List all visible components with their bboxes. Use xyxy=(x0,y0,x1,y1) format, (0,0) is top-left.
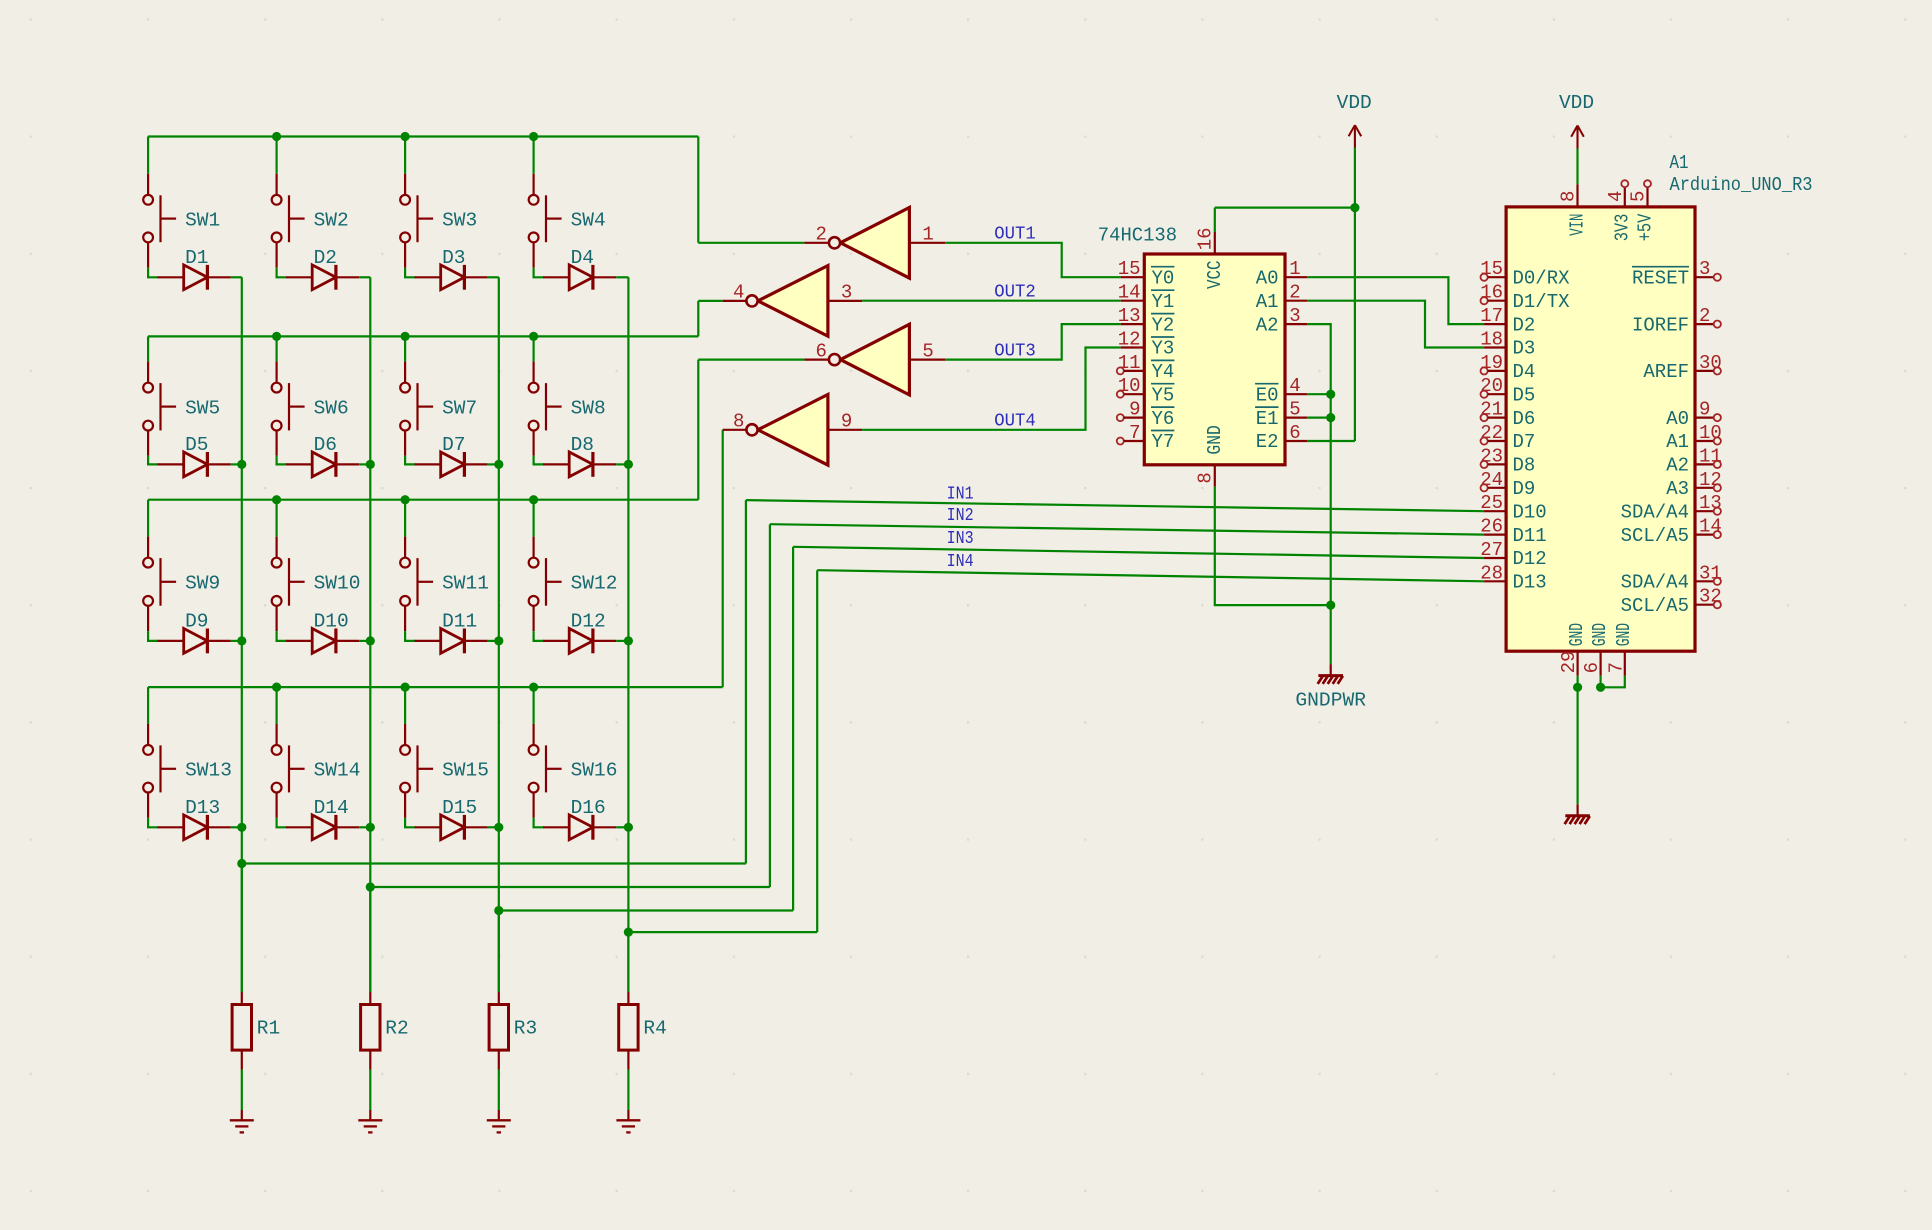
svg-text:3: 3 xyxy=(841,282,852,304)
svg-text:8: 8 xyxy=(1194,472,1216,483)
svg-text:24: 24 xyxy=(1480,469,1503,491)
svg-text:14: 14 xyxy=(1699,516,1722,538)
svg-text:12: 12 xyxy=(1699,469,1722,491)
svg-text:9: 9 xyxy=(1129,399,1140,421)
svg-text:D13: D13 xyxy=(1513,572,1547,594)
svg-text:D4: D4 xyxy=(571,247,594,269)
svg-text:Y6: Y6 xyxy=(1152,408,1175,430)
svg-text:RESET: RESET xyxy=(1632,267,1689,289)
svg-text:23: 23 xyxy=(1480,445,1503,467)
svg-text:VDD: VDD xyxy=(1559,92,1594,114)
svg-text:GND: GND xyxy=(1566,623,1588,646)
svg-text:D6: D6 xyxy=(1513,408,1536,430)
svg-text:9: 9 xyxy=(1699,399,1710,421)
svg-text:Y3: Y3 xyxy=(1152,338,1175,360)
svg-text:D8: D8 xyxy=(1513,455,1536,477)
svg-text:IN1: IN1 xyxy=(947,484,974,504)
svg-text:11: 11 xyxy=(1699,445,1722,467)
svg-text:Y7: Y7 xyxy=(1152,431,1175,453)
svg-text:10: 10 xyxy=(1699,422,1722,444)
svg-text:SW13: SW13 xyxy=(185,760,232,782)
svg-text:7: 7 xyxy=(1129,422,1140,444)
svg-text:15: 15 xyxy=(1118,258,1141,280)
svg-text:4: 4 xyxy=(1605,191,1627,202)
svg-text:7: 7 xyxy=(1605,662,1627,673)
svg-text:Y2: Y2 xyxy=(1152,314,1175,336)
svg-text:D12: D12 xyxy=(1513,548,1547,570)
svg-text:A1: A1 xyxy=(1666,431,1689,453)
svg-text:OUT2: OUT2 xyxy=(994,283,1036,303)
svg-text:D11: D11 xyxy=(442,610,477,632)
svg-text:26: 26 xyxy=(1480,516,1503,538)
svg-text:D10: D10 xyxy=(314,610,349,632)
svg-text:IN4: IN4 xyxy=(947,552,974,572)
svg-text:D9: D9 xyxy=(1513,478,1536,500)
svg-text:SDA/A4: SDA/A4 xyxy=(1621,572,1689,594)
svg-text:D16: D16 xyxy=(571,797,606,819)
svg-text:GND: GND xyxy=(1589,623,1611,646)
svg-text:27: 27 xyxy=(1480,539,1503,561)
svg-text:R1: R1 xyxy=(257,1018,280,1040)
svg-text:1: 1 xyxy=(1289,258,1300,280)
svg-text:D1/TX: D1/TX xyxy=(1513,291,1571,313)
svg-text:IOREF: IOREF xyxy=(1632,314,1689,336)
svg-text:D9: D9 xyxy=(185,610,208,632)
svg-text:13: 13 xyxy=(1118,305,1141,327)
svg-text:3: 3 xyxy=(1699,258,1710,280)
svg-text:25: 25 xyxy=(1480,492,1503,514)
svg-text:5: 5 xyxy=(1628,191,1650,202)
svg-text:6: 6 xyxy=(815,340,826,362)
svg-text:SDA/A4: SDA/A4 xyxy=(1621,501,1689,523)
svg-text:SW14: SW14 xyxy=(314,760,361,782)
svg-text:D2: D2 xyxy=(1513,314,1536,336)
svg-text:D2: D2 xyxy=(314,247,337,269)
svg-text:D5: D5 xyxy=(1513,384,1536,406)
svg-text:SW12: SW12 xyxy=(571,573,618,595)
svg-text:SW9: SW9 xyxy=(185,573,220,595)
svg-text:D13: D13 xyxy=(185,797,220,819)
svg-text:5: 5 xyxy=(1289,399,1300,421)
svg-text:3: 3 xyxy=(1289,305,1300,327)
svg-text:SW11: SW11 xyxy=(442,573,489,595)
svg-text:D11: D11 xyxy=(1513,525,1547,547)
svg-text:A0: A0 xyxy=(1666,408,1689,430)
svg-text:2: 2 xyxy=(815,224,826,246)
svg-text:GND: GND xyxy=(1204,425,1226,455)
svg-text:SW16: SW16 xyxy=(571,760,618,782)
svg-text:3V3: 3V3 xyxy=(1612,214,1634,242)
svg-text:D4: D4 xyxy=(1513,361,1536,383)
svg-text:VIN: VIN xyxy=(1566,214,1588,236)
svg-text:D3: D3 xyxy=(442,247,465,269)
svg-text:OUT4: OUT4 xyxy=(994,412,1036,432)
svg-text:SW5: SW5 xyxy=(185,397,220,419)
svg-text:AREF: AREF xyxy=(1643,361,1689,383)
svg-text:A1: A1 xyxy=(1670,152,1689,174)
svg-text:32: 32 xyxy=(1699,586,1722,608)
svg-text:28: 28 xyxy=(1480,562,1503,584)
svg-text:R3: R3 xyxy=(514,1018,537,1040)
svg-text:SW8: SW8 xyxy=(571,397,606,419)
svg-text:Y4: Y4 xyxy=(1152,361,1175,383)
svg-text:10: 10 xyxy=(1118,375,1141,397)
svg-text:IN2: IN2 xyxy=(947,506,974,526)
svg-text:SCL/A5: SCL/A5 xyxy=(1621,595,1689,617)
svg-text:D7: D7 xyxy=(442,434,465,456)
svg-text:SW4: SW4 xyxy=(571,209,606,231)
svg-text:15: 15 xyxy=(1480,258,1503,280)
svg-text:SW2: SW2 xyxy=(314,209,349,231)
svg-text:6: 6 xyxy=(1289,422,1300,444)
svg-text:1: 1 xyxy=(922,224,933,246)
svg-text:D10: D10 xyxy=(1513,501,1547,523)
svg-text:31: 31 xyxy=(1699,562,1722,584)
svg-text:Y0: Y0 xyxy=(1152,267,1175,289)
svg-text:11: 11 xyxy=(1118,352,1141,374)
svg-text:GNDPWR: GNDPWR xyxy=(1295,690,1366,712)
svg-text:D1: D1 xyxy=(185,247,208,269)
svg-text:Y5: Y5 xyxy=(1152,384,1175,406)
svg-text:SCL/A5: SCL/A5 xyxy=(1621,525,1689,547)
svg-text:8: 8 xyxy=(1558,191,1580,202)
svg-text:SW1: SW1 xyxy=(185,209,220,231)
svg-text:16: 16 xyxy=(1194,227,1216,250)
svg-text:74HC138: 74HC138 xyxy=(1098,225,1177,247)
svg-text:18: 18 xyxy=(1480,329,1503,351)
svg-text:D6: D6 xyxy=(314,434,337,456)
svg-text:Arduino_UNO_R3: Arduino_UNO_R3 xyxy=(1670,174,1813,196)
svg-text:A2: A2 xyxy=(1256,314,1279,336)
svg-text:4: 4 xyxy=(1289,375,1300,397)
svg-text:29: 29 xyxy=(1558,651,1580,674)
svg-text:20: 20 xyxy=(1480,375,1503,397)
svg-text:8: 8 xyxy=(733,411,744,433)
svg-text:GND: GND xyxy=(1613,623,1635,646)
svg-text:13: 13 xyxy=(1699,492,1722,514)
svg-text:E0: E0 xyxy=(1256,384,1279,406)
svg-text:IN3: IN3 xyxy=(947,529,974,549)
svg-text:A3: A3 xyxy=(1666,478,1689,500)
svg-text:VDD: VDD xyxy=(1337,92,1372,114)
svg-text:D14: D14 xyxy=(314,797,349,819)
svg-text:SW15: SW15 xyxy=(442,760,489,782)
svg-text:A0: A0 xyxy=(1256,267,1279,289)
svg-text:22: 22 xyxy=(1480,422,1503,444)
svg-text:D5: D5 xyxy=(185,434,208,456)
svg-text:+5V: +5V xyxy=(1635,213,1657,241)
svg-text:OUT1: OUT1 xyxy=(994,225,1036,245)
svg-text:VCC: VCC xyxy=(1204,261,1226,290)
svg-text:SW7: SW7 xyxy=(442,397,477,419)
svg-text:6: 6 xyxy=(1581,662,1603,673)
svg-text:E2: E2 xyxy=(1256,431,1279,453)
svg-text:30: 30 xyxy=(1699,352,1722,374)
svg-text:9: 9 xyxy=(841,411,852,433)
svg-text:19: 19 xyxy=(1480,352,1503,374)
svg-text:SW10: SW10 xyxy=(314,573,361,595)
svg-text:D15: D15 xyxy=(442,797,477,819)
svg-text:Y1: Y1 xyxy=(1152,291,1175,313)
svg-text:17: 17 xyxy=(1480,305,1503,327)
svg-text:D0/RX: D0/RX xyxy=(1513,267,1571,289)
svg-text:D7: D7 xyxy=(1513,431,1536,453)
svg-text:16: 16 xyxy=(1480,282,1503,304)
svg-text:21: 21 xyxy=(1480,399,1503,421)
svg-text:R2: R2 xyxy=(385,1018,408,1040)
svg-text:14: 14 xyxy=(1118,282,1141,304)
svg-text:4: 4 xyxy=(733,282,744,304)
svg-text:2: 2 xyxy=(1289,282,1300,304)
svg-text:A2: A2 xyxy=(1666,455,1689,477)
svg-text:R4: R4 xyxy=(643,1018,666,1040)
svg-text:E1: E1 xyxy=(1256,408,1279,430)
svg-text:SW3: SW3 xyxy=(442,209,477,231)
svg-text:D3: D3 xyxy=(1513,338,1536,360)
svg-text:OUT3: OUT3 xyxy=(994,341,1036,361)
svg-text:A1: A1 xyxy=(1256,291,1279,313)
svg-text:D12: D12 xyxy=(571,610,606,632)
svg-text:5: 5 xyxy=(922,340,933,362)
svg-text:2: 2 xyxy=(1699,305,1710,327)
svg-text:12: 12 xyxy=(1118,329,1141,351)
svg-text:D8: D8 xyxy=(571,434,594,456)
svg-text:SW6: SW6 xyxy=(314,397,349,419)
